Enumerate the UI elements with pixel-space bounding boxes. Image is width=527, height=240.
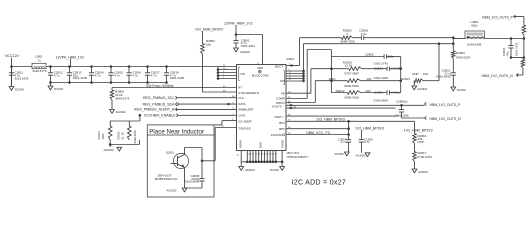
svg-text:DCOM: DCOM (270, 168, 279, 172)
svg-text:100k: 100k (101, 133, 105, 140)
svg-text:0160-5945: 0160-5945 (436, 75, 451, 79)
svg-text:AGND2: AGND2 (116, 110, 126, 114)
wire divider top connector (110, 114, 141, 126)
capacitor C2819 (362, 67, 402, 81)
svg-text:DNP: DNP (418, 140, 424, 144)
resistor R2817 (413, 144, 432, 162)
IC internal labels (238, 64, 285, 148)
svg-text:100p: 100p (387, 55, 394, 59)
resistor R2812 (331, 89, 370, 99)
svg-text:VIN: VIN (240, 72, 245, 76)
note Place Near Inductor box (147, 125, 214, 197)
svg-text:C2819: C2819 (374, 67, 383, 71)
node HBM_1V2_OUTS_N label (425, 116, 461, 121)
svg-text:4.7u: 4.7u (364, 140, 370, 144)
svg-text:VOUTS: VOUTS (272, 105, 282, 109)
wire main 12V rail (46, 66, 218, 68)
svg-text:DCOM: DCOM (335, 152, 344, 156)
svg-text:18: 18 (255, 153, 257, 155)
svg-text:0699-4018: 0699-4018 (344, 95, 359, 99)
svg-text:14: 14 (247, 153, 249, 155)
wire divider bottoms join (109, 140, 140, 147)
svg-text:TPS544C25RVFT: TPS544C25RVFT (286, 155, 308, 159)
net REG_PMBUS_SDA (143, 102, 237, 106)
svg-text:4.7u: 4.7u (54, 73, 60, 77)
capacitor C2811 (9, 67, 29, 87)
svg-text:0160-5945: 0160-5945 (185, 180, 200, 184)
svg-text:U2801: U2801 (286, 57, 294, 61)
wire inductor leads (453, 38, 465, 40)
svg-text:0.1u: 0.1u (361, 32, 367, 36)
svg-text:25: 25 (269, 153, 271, 155)
svg-text:4.7u: 4.7u (132, 73, 138, 77)
svg-text:CNTL: CNTL (238, 113, 246, 117)
svg-text:0161-2403: 0161-2403 (374, 76, 389, 80)
resistor R3802 (sense P) (522, 17, 526, 40)
svg-text:R2813: R2813 (401, 77, 410, 81)
wire VOUTS+ sense (286, 104, 425, 107)
svg-text:1827-7312: 1827-7312 (286, 151, 299, 155)
ground DCOM (snubber) (451, 87, 466, 92)
svg-text:4.7u: 4.7u (114, 73, 120, 77)
capacitor C2824 (338, 121, 352, 152)
label IC part number (286, 151, 308, 159)
wire VCC12V vertical (10, 60, 13, 87)
svg-text:47u: 47u (506, 51, 510, 56)
capacitor C2812 (48, 65, 63, 84)
ground AGND2 (C2801) (234, 48, 251, 54)
wire COMP to network top (286, 50, 331, 99)
wire IC bottom ground pins (241, 151, 283, 167)
node HBM_1V2_OUTS_P label (425, 102, 461, 107)
svg-text:CLK: CLK (238, 96, 244, 100)
svg-text:BP6: BP6 (279, 127, 285, 131)
svg-text:REG_PMBUS_SDA: REG_PMBUS_SDA (143, 102, 176, 106)
svg-text:0699-3810: 0699-3810 (133, 130, 137, 144)
svg-text:23: 23 (264, 153, 266, 155)
capacitor C2817 (145, 65, 160, 84)
svg-text:C2805: C2805 (365, 53, 374, 57)
svg-text:0699-6173: 0699-6173 (115, 96, 130, 100)
svg-text:HBM_1V2_OUTS_N: HBM_1V2_OUTS_N (430, 117, 462, 121)
svg-text:I2C ADDR: I2C ADDR (238, 119, 251, 123)
svg-text:10K: 10K (423, 72, 428, 76)
resistor R2809 (110, 88, 129, 110)
svg-text:1V2_HBM_BP3V3: 1V2_HBM_BP3V3 (316, 118, 345, 122)
net REG_PMBUS_SCL (143, 96, 237, 100)
svg-text:HBM_1V2_OUTS_P: HBM_1V2_OUTS_P (482, 16, 514, 20)
node HBM_1V2_OUTS_P flag (482, 15, 524, 20)
resistor R3803 (sense N) (521, 58, 525, 76)
svg-text:1V2_HBM_BP3V3: 1V2_HBM_BP3V3 (355, 126, 384, 130)
node 12VPA_HBM_1V2 label on rail (56, 55, 85, 66)
ground AGND2 (R2809) (110, 110, 126, 115)
svg-text:15: 15 (249, 153, 251, 155)
svg-text:MMBT3904LT1G: MMBT3904LT1G (155, 177, 178, 181)
svg-text:DCOM: DCOM (457, 88, 466, 92)
capacitor C2802 (353, 29, 373, 40)
ground AGND2 (Q2801) (167, 188, 187, 192)
svg-text:VDD: VDD (257, 66, 263, 70)
pin numbers VIN (223, 65, 226, 79)
wire network left bus (330, 57, 332, 93)
svg-text:C2820: C2820 (374, 91, 383, 95)
capacitor C2813 (67, 65, 87, 84)
node HBM_1V2_OUTS_N flag (482, 73, 523, 78)
svg-text:AGND2: AGND2 (104, 148, 114, 152)
svg-text:0757-4590: 0757-4590 (344, 72, 359, 76)
wire SW to inductor (304, 36, 455, 45)
wire VDD feed (235, 28, 263, 65)
net VCCHBM_ENABLE (144, 114, 237, 118)
capacitor C2805 (331, 53, 400, 66)
svg-text:2u: 2u (405, 99, 409, 103)
svg-text:7u: 7u (38, 58, 42, 62)
svg-text:22: 22 (261, 153, 263, 155)
resistor R2816 DNP (413, 121, 427, 144)
inductor L2802 (32, 55, 47, 73)
svg-text:19: 19 (258, 153, 260, 155)
inductor L3801 (465, 20, 485, 47)
ground AGND2 (divider) (104, 147, 122, 152)
svg-text:BP3: BP3 (279, 121, 285, 125)
svg-text:12VPA_HBM_1V2: 12VPA_HBM_1V2 (56, 55, 85, 59)
svg-text:AGND2: AGND2 (240, 50, 250, 54)
resistor R2803 (340, 29, 355, 44)
svg-text:BUCK CONV: BUCK CONV (252, 74, 269, 78)
svg-text:REG_PMBUS_ALERT_B: REG_PMBUS_ALERT_B (134, 108, 175, 112)
ground AGND2 (IC bottom) (239, 167, 256, 172)
transistor Q2801 (166, 150, 189, 168)
svg-text:4.7u: 4.7u (151, 73, 157, 77)
wire TSNS/SS to transistor (202, 128, 237, 161)
svg-text:I2C ADD = 0x27: I2C ADD = 0x27 (292, 179, 347, 186)
svg-text:35: 35 (275, 153, 277, 155)
wire OUTS_N row (402, 117, 425, 119)
wire input rail to inductor (12, 66, 33, 68)
svg-text:VCC12V: VCC12V (5, 54, 20, 58)
capacitor C2808 (185, 161, 205, 188)
svg-text:17: 17 (252, 153, 254, 155)
capacitor C2818 (164, 65, 184, 84)
resistor R2814 (97, 126, 112, 140)
ground AGND2 (C2825) (356, 153, 370, 158)
ground DCOM (IC bottom) (270, 167, 285, 172)
capacitor C2801 (233, 35, 255, 49)
ground DCOM (cap rail) (48, 83, 63, 91)
svg-text:29: 29 (272, 153, 274, 155)
svg-text:R2812: R2812 (336, 89, 345, 93)
svg-text:51.1K: 51.1K (120, 132, 124, 139)
ground DCOM (under C2811) (9, 87, 24, 92)
svg-text:0700-0379: 0700-0379 (418, 155, 433, 159)
svg-text:0161-1532: 0161-1532 (515, 42, 519, 56)
capacitor C2820 (360, 90, 400, 102)
wire FB to network (286, 67, 333, 93)
svg-text:12VPA_HBM_1V2: 12VPA_HBM_1V2 (224, 22, 253, 26)
bidirectional arrows on SDA wire (226, 103, 228, 106)
svg-text:10k: 10k (206, 42, 211, 46)
resistor R2802 (201, 34, 215, 55)
wire BP6 (286, 127, 350, 130)
ground AGND2 (R2813) (412, 81, 428, 91)
wire VIN bus (217, 67, 237, 80)
resistor R2815 (117, 126, 138, 144)
wire R2802 to SYNC/RESETN pin 39 (202, 54, 204, 92)
svg-text:SMBALERT: SMBALERT (238, 107, 254, 111)
svg-text:REG_PMBUS_SCL: REG_PMBUS_SCL (143, 96, 175, 100)
op-amp U2801 TPS544C25 buck converter IC box (237, 57, 295, 151)
svg-text:0.001u: 0.001u (391, 91, 401, 95)
svg-text:0700-0534: 0700-0534 (456, 55, 471, 59)
svg-text:AGND2: AGND2 (417, 87, 427, 91)
resistor R2804 (452, 44, 471, 60)
node 1V2_HBM_BP3V3 flag (C2825) (355, 126, 384, 132)
capacitor C2815 (108, 65, 123, 84)
svg-text:560n: 560n (471, 23, 478, 27)
pin numbers bottom row (236, 153, 277, 156)
svg-text:DNP: DNP (412, 72, 418, 76)
capacitor C2814 (89, 65, 104, 84)
svg-text:RT: RT (238, 85, 242, 89)
svg-text:FB: FB (281, 91, 285, 95)
net REG_PMBUS_ALERT_B (134, 108, 236, 112)
resistor R2813 DNP (401, 42, 440, 82)
svg-text:BOOT: BOOT (275, 64, 283, 68)
wire VSET (286, 114, 399, 116)
wire VOUTS- sense (286, 107, 396, 110)
svg-text:24: 24 (266, 153, 268, 155)
svg-text:1V2_HBM_BP3V3: 1V2_HBM_BP3V3 (195, 28, 223, 32)
svg-text:TSNS/SS: TSNS/SS (238, 126, 250, 130)
svg-text:PGOOD: PGOOD (271, 133, 282, 137)
svg-text:0161-4341: 0161-4341 (241, 44, 256, 48)
svg-text:0161-3166: 0161-3166 (73, 76, 88, 80)
svg-text:DCOM: DCOM (15, 87, 24, 91)
resistor R2811 (329, 77, 402, 88)
ground DCOM (C2824) (335, 152, 350, 156)
wire DIFFO to divider (286, 79, 333, 102)
svg-text:AGND2: AGND2 (356, 153, 366, 157)
bidirectional arrows on BOOT wire (289, 64, 291, 67)
svg-text:0699-7259: 0699-7259 (340, 40, 355, 44)
svg-text:AGND2: AGND2 (167, 188, 177, 192)
wire BOOT (286, 38, 342, 66)
svg-text:AGND2: AGND2 (418, 170, 428, 174)
node VCC12V power flag (5, 54, 20, 60)
node 1V2_HBM_BP3V3 power flag (195, 28, 223, 34)
ground AGND2 (R2817) (412, 162, 428, 175)
svg-text:HBM_VCC_P3: HBM_VCC_P3 (306, 131, 329, 135)
wire output right branch (510, 39, 526, 59)
svg-text:HBM_1V2_OUTS_N: HBM_1V2_OUTS_N (482, 74, 514, 78)
svg-text:1V2_HBM_BP3V3: 1V2_HBM_BP3V3 (404, 129, 433, 133)
svg-text:0160-6563: 0160-6563 (374, 99, 389, 103)
resistor R2810 (331, 61, 362, 76)
svg-text:4.7u: 4.7u (95, 73, 101, 77)
label Q2801 part numbers (155, 173, 178, 181)
svg-text:HBM_1V2_OUTS_P: HBM_1V2_OUTS_P (430, 103, 462, 107)
capacitor C3804 (502, 37, 519, 57)
svg-text:SW: SW (280, 79, 285, 83)
svg-text:0699-5529: 0699-5529 (344, 84, 359, 88)
svg-text:0161-4435: 0161-4435 (170, 76, 185, 80)
svg-text:DCOM: DCOM (54, 87, 63, 91)
wire network right bus (400, 57, 402, 93)
wire snubber to SW node (373, 37, 454, 39)
svg-text:VCCHBM_ENABLE: VCCHBM_ENABLE (144, 114, 176, 118)
svg-text:0161-2743: 0161-2743 (374, 61, 389, 65)
svg-text:SYNC/RESETN: SYNC/RESETN (238, 91, 259, 95)
wire emitter to ground (185, 168, 203, 189)
capacitor C2816 (126, 65, 141, 84)
svg-text:4.7u: 4.7u (341, 140, 347, 144)
capacitor C2806 (395, 99, 409, 118)
svg-text:AGND: AGND (239, 140, 243, 148)
wire BP3 with net 1V2_HBM_BP3V3 (286, 118, 415, 123)
wire cap ground rail (51, 82, 167, 84)
svg-text:9140-5779: 9140-5779 (33, 69, 47, 73)
pin numbers left lower (221, 96, 235, 128)
capacitor C2821 (436, 59, 456, 88)
wire ADDR pin (214, 121, 237, 125)
capacitor C2825 (359, 133, 373, 153)
wire SW bus (286, 44, 305, 83)
svg-text:12.1K: 12.1K (345, 64, 353, 68)
svg-text:R2811: R2811 (329, 78, 337, 81)
svg-text:Place Near Inductor: Place Near Inductor (149, 129, 204, 136)
node 12VPA_HBM_1V2 flag (VDD) (224, 22, 253, 28)
wire PGOOD with net HBM_VCC_P3 (286, 131, 350, 136)
svg-text:GND: GND (259, 142, 263, 148)
svg-text:DATA: DATA (238, 102, 245, 106)
svg-text:〈〉: 〈〉 (281, 116, 285, 119)
wire collector loop (185, 148, 204, 163)
svg-text:PGND: PGND (281, 140, 285, 148)
svg-text:0161-1636: 0161-1636 (15, 77, 29, 81)
svg-text:10K: 10K (366, 77, 371, 81)
svg-text:AGND2: AGND2 (245, 168, 255, 172)
wire RT pin 40 (112, 87, 237, 89)
svg-text:Q2801: Q2801 (166, 150, 174, 154)
svg-text:9140-6398: 9140-6398 (467, 43, 482, 47)
